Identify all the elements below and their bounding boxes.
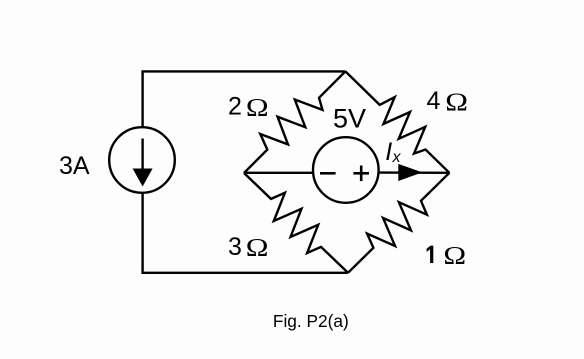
V1 minus sign: [320, 172, 336, 175]
svg-text:2: 2: [228, 93, 242, 121]
voltage source V1 5V circle: [313, 137, 379, 203]
svg-text:x: x: [392, 149, 402, 166]
V1 plus sign: [353, 172, 369, 175]
svg-text:Ω: Ω: [443, 242, 466, 270]
svg-text:5V: 5V: [333, 104, 366, 134]
svg-text:Ω: Ω: [246, 94, 269, 122]
label R4 value 1: [427, 246, 434, 263]
resistor R1 2ohm: [244, 71, 345, 173]
resistor R4 1ohm: [348, 173, 449, 273]
wire top (current source top to bridge top node): [143, 71, 346, 127]
svg-text:Ω: Ω: [246, 234, 269, 262]
wire left node to voltage source: [244, 172, 313, 174]
wire bottom (current source bottom to bridge bottom node): [143, 193, 348, 273]
svg-text:Fig. P2(a): Fig. P2(a): [273, 311, 349, 331]
svg-text:3A: 3A: [59, 152, 90, 180]
resistor R3 3ohm: [244, 173, 348, 273]
current source 3A circle: [109, 127, 175, 193]
svg-text:4: 4: [427, 87, 441, 115]
svg-text:3: 3: [228, 233, 242, 261]
svg-text:I: I: [385, 138, 392, 166]
wire voltage source to right node: [379, 171, 450, 174]
current source 3A arrow: [141, 139, 143, 173]
svg-text:Ω: Ω: [445, 88, 468, 116]
current arrow Ix: [398, 164, 422, 181]
resistor R2 4ohm: [345, 71, 449, 172]
